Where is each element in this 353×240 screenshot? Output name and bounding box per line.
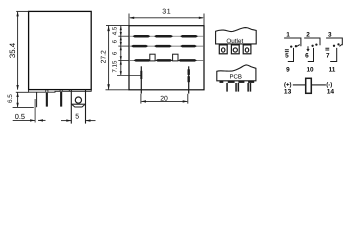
svg-text:0.5: 0.5 bbox=[15, 112, 25, 121]
svg-text:20: 20 bbox=[160, 96, 168, 103]
dimension 20 bbox=[141, 94, 188, 104]
svg-text:6.5: 6.5 bbox=[7, 94, 14, 103]
terminal row 2 blades bbox=[131, 45, 197, 48]
pcb body bbox=[217, 65, 256, 81]
pcb pad stubs bbox=[220, 81, 255, 83]
svg-text:6: 6 bbox=[111, 39, 118, 43]
dimension 31 bbox=[129, 14, 204, 26]
svg-text:7.15: 7.15 bbox=[111, 60, 118, 73]
pin thin 0.5 bbox=[36, 92, 38, 107]
rim extension line bbox=[16, 91, 29, 93]
outlet slot 2 bbox=[231, 45, 239, 54]
pole 2 terminal 10 bbox=[308, 48, 314, 62]
coil pin left bbox=[140, 66, 142, 93]
pole 3 contacts bbox=[333, 45, 335, 47]
pole 1 contacts bbox=[290, 45, 292, 47]
pin bottom extension line bbox=[13, 106, 34, 108]
terminal row line 2 bbox=[129, 45, 204, 47]
pcb pin pair right bbox=[247, 83, 249, 92]
outlet socket body bbox=[216, 28, 257, 44]
svg-text:10: 10 bbox=[306, 66, 314, 73]
chained dimension line bbox=[120, 26, 122, 76]
keying window left bbox=[150, 54, 155, 61]
coil pin right bbox=[188, 66, 190, 93]
svg-text:4.5: 4.5 bbox=[111, 26, 118, 35]
svg-text:5: 5 bbox=[75, 114, 79, 121]
svg-text:31: 31 bbox=[162, 9, 171, 16]
pole 1 terminal 5 bbox=[285, 50, 289, 52]
terminal row line 3 bbox=[129, 59, 204, 61]
pcb pin 1 bbox=[226, 83, 228, 92]
terminal row 1 blades bbox=[132, 35, 198, 38]
coil U1 bbox=[306, 78, 312, 93]
dimension 27.2 bbox=[106, 25, 130, 89]
mounting tab bbox=[71, 90, 85, 124]
svg-text:(+): (+) bbox=[284, 82, 292, 89]
pin B bbox=[46, 92, 48, 106]
terminal row 3 blades bbox=[134, 59, 198, 62]
dimension 35.4 bbox=[16, 11, 28, 89]
tab hole bbox=[75, 97, 81, 103]
svg-text:PCB: PCB bbox=[230, 74, 242, 81]
keying window right bbox=[173, 54, 178, 61]
svg-text:Outlet: Outlet bbox=[226, 38, 243, 45]
terminal row line 1 bbox=[129, 35, 204, 37]
svg-text:9: 9 bbox=[286, 66, 290, 73]
pole 3 terminal 7 bbox=[325, 48, 329, 50]
pcb pin pair middle bbox=[235, 83, 237, 92]
svg-text:35.4: 35.4 bbox=[8, 42, 17, 58]
outlet slot 3 bbox=[243, 45, 251, 54]
svg-text:11: 11 bbox=[329, 66, 336, 73]
svg-text:14: 14 bbox=[327, 89, 335, 96]
svg-text:13: 13 bbox=[284, 89, 292, 96]
svg-text:6: 6 bbox=[305, 53, 309, 60]
coil wire right bbox=[311, 84, 326, 86]
svg-text:5: 5 bbox=[285, 53, 289, 60]
svg-text:6: 6 bbox=[111, 51, 118, 55]
pin C bbox=[60, 91, 62, 106]
svg-text:7: 7 bbox=[326, 53, 330, 60]
relay body side view bbox=[29, 11, 92, 89]
pole 2 terminal 6 bbox=[307, 46, 309, 51]
svg-text:(-): (-) bbox=[326, 82, 332, 89]
dimension 6.5 bbox=[17, 92, 19, 107]
pole 1 terminal 9 bbox=[288, 48, 294, 62]
pole 2 contacts bbox=[311, 45, 313, 47]
pole 3 terminal 11 bbox=[330, 48, 337, 62]
outlet slot 1 bbox=[219, 45, 227, 54]
svg-text:27.2: 27.2 bbox=[100, 50, 107, 63]
tab groove bbox=[72, 105, 84, 107]
relay bottom view outline bbox=[129, 26, 204, 90]
coil wire left bbox=[293, 84, 306, 86]
relay base rim bbox=[29, 90, 92, 93]
